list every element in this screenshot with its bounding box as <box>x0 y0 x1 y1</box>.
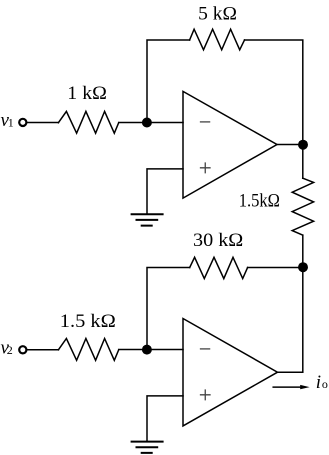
node C junction dot (U2 inverting input) <box>142 345 152 355</box>
resistor R3 1.5kOhm vertical zigzag <box>292 178 313 235</box>
resistor R1 5 kOhm zigzag <box>190 29 245 50</box>
wire R5 to op-amp U2 inverting input <box>119 349 183 351</box>
op-amp U2 plus sign <box>201 390 211 400</box>
wire U2 noninverting input <box>147 396 183 442</box>
wire top feedback right segment <box>245 40 303 178</box>
svg-text:1 kΩ: 1 kΩ <box>67 83 107 104</box>
wire v1 to R2 <box>27 122 58 124</box>
terminal v2 circle <box>19 346 26 353</box>
wire U2 output to node B vertical <box>278 268 303 373</box>
op-amp U1 triangle <box>183 91 277 198</box>
terminal v1 circle <box>19 119 26 126</box>
wire R3 bottom to node B <box>302 235 304 267</box>
svg-text:io: io <box>316 372 328 393</box>
svg-text:30 kΩ: 30 kΩ <box>193 230 243 251</box>
svg-text:5 kΩ: 5 kΩ <box>198 4 237 25</box>
svg-text:1.5kΩ: 1.5kΩ <box>239 190 280 211</box>
ground U1 <box>132 214 163 225</box>
node A junction dot (U1 inverting input) <box>142 118 152 128</box>
arrow io head <box>300 385 309 389</box>
ground U2 <box>132 442 163 453</box>
wire U1 noninverting input <box>147 169 183 214</box>
op-amp U1 plus sign <box>201 163 211 173</box>
resistor R4 30 kOhm zigzag <box>190 257 248 278</box>
wire U1 output <box>277 144 303 146</box>
wire R2 to op-amp U1 inverting input <box>119 122 183 124</box>
node B junction dot (R3/R4/U2 output) <box>298 262 308 272</box>
wire bottom feedback left segment <box>147 268 190 350</box>
op-amp U1 minus sign <box>201 121 210 123</box>
arrow io current <box>273 386 300 388</box>
resistor R2 1 kOhm zigzag <box>58 111 118 133</box>
svg-text:1.5 kΩ: 1.5 kΩ <box>60 311 116 332</box>
resistor R5 1.5 kOhm zigzag <box>58 339 118 361</box>
op-amp U2 triangle <box>183 319 278 426</box>
wire top feedback left segment <box>147 40 190 123</box>
svg-text:v2: v2 <box>1 337 13 358</box>
op-amp U2 minus sign <box>201 348 210 350</box>
node U1 output junction dot <box>298 140 308 150</box>
wire v2 to R5 <box>27 349 58 351</box>
svg-text:v1: v1 <box>1 110 14 131</box>
wire R4 to node B <box>248 267 303 269</box>
